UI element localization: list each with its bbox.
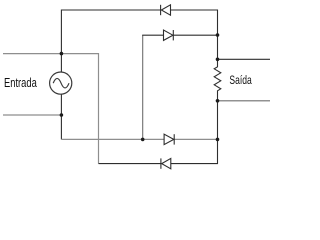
wire input top lead <box>3 53 61 55</box>
wire bottom row left segment <box>99 163 161 165</box>
svg-text:Saída: Saída <box>229 74 251 88</box>
svg-text:Entrada: Entrada <box>4 76 37 90</box>
label Saida <box>229 74 251 88</box>
wire row2 right to rail <box>173 34 217 36</box>
wire output bottom lead <box>218 100 271 102</box>
wire input bottom lead <box>3 114 61 116</box>
node rail row3 junction dot <box>216 138 220 142</box>
AC source V1 <box>50 72 72 94</box>
node output+ junction dot <box>216 58 220 62</box>
node row3 branch junction dot <box>141 138 145 142</box>
resistor R1 <box>214 59 221 101</box>
node A junction dot <box>60 52 64 56</box>
diode D4 <box>161 158 171 168</box>
node rail row2 junction dot <box>216 33 220 37</box>
wire output top lead <box>218 58 271 60</box>
wire AC bottom to row3 corner <box>60 115 62 139</box>
label Entrada <box>4 76 37 90</box>
wire row3 right to rail <box>174 138 217 140</box>
wire row3 left segment <box>61 138 164 140</box>
wire rail bottom section <box>171 101 218 164</box>
diode D3 <box>164 134 174 144</box>
node B junction dot <box>60 113 64 117</box>
diode D2 <box>164 30 174 40</box>
wire second vertical <box>142 35 144 139</box>
wire top from node A over to rail <box>61 10 160 54</box>
diode D1 <box>161 5 171 15</box>
wire top right segment <box>171 10 218 59</box>
node output- junction dot <box>216 99 220 103</box>
wire row2 left segment <box>142 34 163 36</box>
wire AC source leads <box>60 54 62 115</box>
wire node A to mid vertical <box>61 54 98 164</box>
